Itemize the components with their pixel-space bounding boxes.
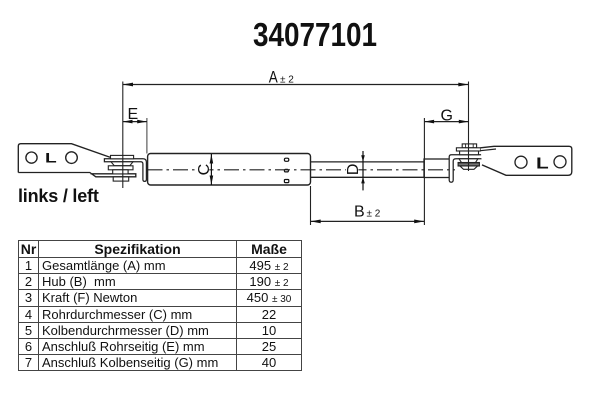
left stud wide washer xyxy=(108,166,133,170)
extension line right (stud center, A/G) xyxy=(468,82,470,172)
svg-text:± 2: ± 2 xyxy=(367,209,381,220)
left L-bracket (tube side) xyxy=(104,159,146,182)
left stud top nut xyxy=(111,155,134,158)
left stud trapezoid washer xyxy=(111,162,133,166)
centerline (dash-dot axis) xyxy=(148,169,456,171)
svg-text:A: A xyxy=(269,68,279,87)
right plate hole 1 xyxy=(515,156,527,168)
svg-text:L: L xyxy=(45,150,57,165)
right nut facet left xyxy=(465,144,467,148)
svg-text:L: L xyxy=(536,154,549,172)
dimension C arrow down xyxy=(210,176,214,185)
dimension E arrow right xyxy=(137,120,147,124)
left bracket plate bottom edge and lower strip xyxy=(18,173,136,177)
svg-text:E: E xyxy=(128,106,139,123)
right stud washer xyxy=(460,151,479,155)
right L-bracket (rod side) xyxy=(449,155,482,183)
right stud top nut xyxy=(462,144,476,148)
extension line cylinder-end (B left) xyxy=(310,186,312,225)
dimension C line xyxy=(210,154,212,185)
dimension E arrow left xyxy=(123,120,133,124)
left plate hole 2 xyxy=(66,152,78,164)
svg-text:± 2: ± 2 xyxy=(280,75,294,86)
dimension A arrow left xyxy=(123,83,133,87)
right plate hole 2 xyxy=(554,156,566,168)
dimension G arrow right xyxy=(459,120,469,124)
right stud trapezoid washer xyxy=(459,159,478,163)
extension line tube-end (E right) xyxy=(146,118,148,154)
white patch under label D xyxy=(346,164,359,174)
dimension D arrow lower (pointing up) xyxy=(361,177,365,183)
crimp mark bottom xyxy=(284,180,288,183)
right stud lower trapezoid xyxy=(460,166,478,169)
left plate hole 1 xyxy=(26,152,37,163)
dimension E line xyxy=(123,121,147,123)
cylinder tube body xyxy=(148,154,311,186)
right nut facet right xyxy=(472,144,474,148)
right plate arm lower line xyxy=(481,149,497,151)
specification table xyxy=(18,240,302,371)
left stud bottom nut xyxy=(113,177,129,181)
right stud arm band (plate arm) xyxy=(456,148,480,151)
dimension B arrow right xyxy=(414,220,424,224)
dimension B arrow left xyxy=(311,220,321,224)
dimension D arrow upper (pointing down) xyxy=(361,155,365,161)
dimension C arrow up xyxy=(210,154,214,163)
right washer stack inner line 2 xyxy=(459,164,480,166)
dimension A arrow right xyxy=(458,83,468,87)
dimension G line xyxy=(424,121,468,123)
right stud washer stack xyxy=(458,163,479,167)
extension line rod-end (G left / B right) xyxy=(423,118,425,225)
dimension A line xyxy=(123,84,469,86)
extension line left (stud center, A/E) xyxy=(122,82,124,189)
dimension D line xyxy=(362,151,364,190)
svg-text:C: C xyxy=(196,164,213,176)
dimension G arrow left xyxy=(424,120,434,124)
piston rod bottom line xyxy=(311,176,425,178)
left stud neck xyxy=(113,170,128,174)
svg-text:G: G xyxy=(441,108,453,125)
rod end block xyxy=(424,159,451,178)
right bracket plate xyxy=(481,146,572,175)
dimension B line xyxy=(311,220,425,222)
white patch under label C xyxy=(196,164,209,176)
left bracket plate xyxy=(18,144,110,173)
part number title xyxy=(253,17,377,53)
crimp mark top xyxy=(284,158,288,161)
crimp mark middle xyxy=(284,169,288,172)
svg-text:B: B xyxy=(354,204,365,221)
right washer stack inner line 1 xyxy=(459,163,480,165)
svg-text:D: D xyxy=(345,164,362,176)
links / left caption xyxy=(18,187,99,205)
piston rod top line xyxy=(311,161,425,163)
